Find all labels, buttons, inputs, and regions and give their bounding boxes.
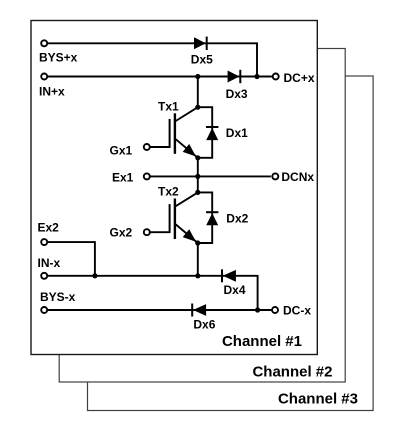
- wire BYS-x to DC-x: [48, 309, 271, 311]
- junction node Tx2 emitter: [195, 240, 200, 245]
- svg-text:Channel #1: Channel #1: [222, 333, 302, 350]
- terminal Ex2: [41, 239, 47, 245]
- diode Dx2: [206, 212, 218, 225]
- junction node BYS+x/DC+x corner: [254, 74, 259, 79]
- svg-text:Dx3: Dx3: [226, 87, 248, 101]
- wire IN-x to DC-x corner: [48, 276, 258, 310]
- wire Ex2 branch: [48, 242, 95, 276]
- channel #1 box: [31, 21, 317, 355]
- junction node Tx1 collector: [195, 105, 200, 110]
- diode Dx4: [222, 269, 236, 282]
- svg-text:Dx5: Dx5: [191, 53, 213, 67]
- wire IN+x to DC+x: [48, 76, 272, 78]
- junction node main vertical/IN-x: [195, 273, 200, 278]
- svg-text:IN+x: IN+x: [39, 85, 65, 99]
- wire main vertical upper: [197, 77, 199, 108]
- terminal DC+x: [273, 74, 279, 80]
- junction node Tx1 emitter: [195, 155, 200, 160]
- svg-text:BYS+x: BYS+x: [39, 51, 78, 65]
- terminal IN-x: [41, 273, 47, 279]
- svg-text:Dx6: Dx6: [193, 318, 215, 332]
- wire Gx1 gate lead: [151, 146, 171, 148]
- svg-text:Channel #2: Channel #2: [252, 364, 332, 381]
- svg-text:Channel #3: Channel #3: [278, 391, 358, 408]
- junction node on IN+x line at main vertical: [195, 74, 200, 79]
- svg-text:Gx2: Gx2: [110, 226, 133, 240]
- terminal BYS+x: [41, 40, 47, 46]
- svg-text:Dx1: Dx1: [226, 126, 248, 140]
- junction node Dx4/DC-x corner: [255, 307, 260, 312]
- diode Dx5: [194, 37, 207, 50]
- diode Dx3: [228, 70, 241, 83]
- wire Gx2 gate lead: [151, 231, 171, 233]
- svg-text:DC+x: DC+x: [284, 71, 315, 85]
- wire Ex1 to DCNx: [151, 175, 271, 177]
- wire BYS+x to DC+x corner: [48, 43, 257, 76]
- terminal DCNx: [272, 173, 278, 179]
- terminal BYS-x: [41, 307, 47, 313]
- svg-text:DCNx: DCNx: [281, 170, 314, 184]
- svg-text:Ex1: Ex1: [112, 170, 134, 184]
- diode Dx1: [206, 127, 218, 140]
- junction node on DCNx line: [195, 174, 200, 179]
- terminal DC-x: [272, 307, 278, 313]
- terminal Gx2: [144, 229, 150, 235]
- transistor Tx2: [170, 192, 198, 243]
- diode Dx6: [192, 304, 206, 317]
- terminal Ex1: [144, 173, 150, 179]
- svg-text:Gx1: Gx1: [110, 144, 133, 158]
- svg-text:Tx1: Tx1: [158, 100, 179, 114]
- terminal Gx1: [144, 144, 150, 150]
- channel #2 box: [59, 49, 345, 383]
- wire main vertical middle: [197, 158, 199, 193]
- terminal IN+x: [41, 74, 47, 80]
- channel #3 box: [88, 76, 374, 411]
- junction node Ex2/IN-x: [92, 273, 97, 278]
- transistor Tx1: [170, 107, 198, 158]
- svg-text:Ex2: Ex2: [38, 220, 60, 234]
- svg-text:Dx2: Dx2: [226, 211, 248, 225]
- wire main vertical lower: [197, 243, 199, 276]
- junction node Tx2 collector: [195, 190, 200, 195]
- wire Dx2 branch: [198, 192, 212, 243]
- svg-text:DC-x: DC-x: [283, 304, 311, 318]
- svg-text:BYS-x: BYS-x: [40, 290, 76, 304]
- wire Dx1 branch: [198, 107, 212, 158]
- svg-text:IN-x: IN-x: [38, 256, 61, 270]
- svg-text:Tx2: Tx2: [158, 185, 179, 199]
- svg-text:Dx4: Dx4: [224, 283, 246, 297]
